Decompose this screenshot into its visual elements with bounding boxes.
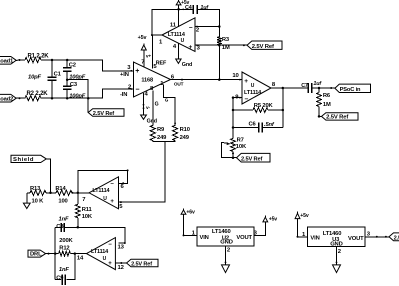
- svg-text:12: 12: [118, 265, 125, 271]
- svg-text:200K: 200K: [59, 238, 73, 244]
- svg-text:R3: R3: [222, 37, 230, 43]
- svg-text:LT1114: LT1114: [92, 188, 110, 194]
- svg-text:+5v: +5v: [269, 216, 278, 222]
- svg-text:2: 2: [196, 27, 200, 33]
- feedback vert left: [232, 98, 235, 139]
- svg-text:8: 8: [272, 82, 276, 88]
- wire join: [153, 141, 175, 142]
- svg-text:2.5V Ref: 2.5V Ref: [394, 235, 399, 241]
- svg-text:R5 20K: R5 20K: [254, 103, 274, 109]
- resistor R9: [150, 125, 167, 141]
- svg-text:2: 2: [227, 248, 231, 254]
- svg-text:R7: R7: [237, 138, 244, 144]
- capacitor C3: [63, 78, 86, 99]
- wire R3 to out: [218, 45, 220, 79]
- svg-text:+: +: [189, 44, 193, 51]
- wire left vertical: [54, 227, 57, 279]
- svg-text:−: −: [110, 181, 114, 187]
- resistor R5: [233, 103, 284, 113]
- op-amp U1 LT1114 gain: [242, 72, 271, 104]
- wire: [41, 88, 134, 98]
- svg-text:−: −: [189, 25, 193, 32]
- svg-text:REF: REF: [156, 61, 167, 67]
- svg-text:.5nf: .5nf: [264, 122, 275, 128]
- svg-text:2: 2: [338, 249, 342, 255]
- svg-text:Gnd: Gnd: [147, 119, 157, 125]
- svg-text:R6: R6: [323, 93, 331, 99]
- svg-text:4: 4: [145, 92, 149, 98]
- capacitor C6: [233, 121, 283, 132]
- svg-text:11: 11: [170, 22, 177, 28]
- capacitor C7: [301, 81, 335, 93]
- wire to pin5: [119, 142, 166, 203]
- svg-text:+: +: [110, 199, 114, 205]
- connector 2.5V Ref drl: [127, 259, 159, 267]
- svg-text:Load2: Load2: [0, 97, 13, 103]
- svg-text:R11: R11: [82, 207, 93, 213]
- pin 5 label: [119, 204, 123, 210]
- potentiometer R7: [221, 138, 247, 159]
- svg-text:2.5V Ref: 2.5V Ref: [131, 261, 152, 267]
- pin 8 out: [271, 82, 308, 89]
- svg-text:R10: R10: [180, 127, 190, 133]
- svg-text:DRL: DRL: [30, 252, 42, 258]
- svg-text:+6v: +6v: [186, 209, 195, 215]
- svg-text:v+: v+: [146, 55, 152, 60]
- feedback vert right: [282, 88, 284, 128]
- svg-text:100: 100: [58, 199, 67, 205]
- connector 2.5V Ref top: [247, 41, 282, 50]
- svg-text:4: 4: [173, 44, 177, 50]
- svg-text:LT1460: LT1460: [323, 231, 342, 237]
- pin 6 label: [121, 184, 125, 190]
- resistor R3: [217, 37, 230, 51]
- connector 2.5V Ref input: [88, 109, 124, 117]
- pin labels: [159, 22, 201, 51]
- connector 2.5V Ref right: [322, 113, 359, 121]
- svg-text:+5v: +5v: [138, 35, 147, 41]
- svg-text:10: 10: [232, 73, 239, 79]
- svg-text:−: −: [108, 242, 112, 248]
- svg-text:PSoC in: PSoC in: [340, 87, 361, 93]
- svg-text:C1: C1: [54, 71, 62, 77]
- connector 2.5V Ref bottom: [389, 233, 399, 241]
- wire: [318, 115, 322, 118]
- svg-text:10 K: 10 K: [32, 199, 45, 205]
- svg-text:VOUT: VOUT: [236, 235, 252, 241]
- wire: [46, 253, 59, 255]
- svg-text:G: G: [155, 101, 159, 107]
- pin 9 stub: [232, 95, 242, 101]
- svg-text:R13: R13: [30, 186, 41, 192]
- pin 12 stub: [115, 262, 126, 271]
- wire: [16, 59, 25, 61]
- svg-text:R12: R12: [59, 245, 69, 251]
- svg-text:1nF: 1nF: [59, 217, 69, 223]
- svg-text:U: U: [103, 256, 107, 262]
- svg-text:GND: GND: [220, 239, 232, 245]
- svg-text:2.5V Ref: 2.5V Ref: [241, 157, 263, 163]
- connector PSoC in: [335, 84, 371, 93]
- power +6v: [181, 208, 197, 236]
- svg-text:100pF: 100pF: [69, 94, 86, 100]
- svg-text:VIN: VIN: [200, 235, 209, 241]
- svg-text:U: U: [251, 83, 255, 89]
- wire: [16, 97, 25, 99]
- svg-text:2.5V Ref: 2.5V Ref: [326, 115, 348, 121]
- pin 2 label: [120, 84, 132, 98]
- resistor R2: [25, 91, 48, 101]
- pin 2 stub: [195, 25, 221, 28]
- svg-text:+5v: +5v: [300, 213, 309, 219]
- op-amp U1 LT1114 buffer: [162, 18, 195, 52]
- power +5v: [295, 212, 309, 238]
- ground: [23, 193, 30, 209]
- svg-text:13: 13: [118, 244, 125, 250]
- resistor R14: [55, 186, 89, 205]
- svg-text:C3: C3: [70, 82, 78, 88]
- svg-text:10pF: 10pF: [28, 75, 42, 81]
- svg-text:10K: 10K: [236, 144, 247, 150]
- pin 6 output wire: [171, 75, 242, 87]
- svg-text:Gnd: Gnd: [182, 62, 192, 68]
- power +5v at pin 7: [138, 35, 152, 66]
- feedback wire: [78, 169, 129, 192]
- svg-text:14: 14: [77, 255, 84, 261]
- resistor R13: [27, 186, 56, 205]
- svg-text:U: U: [181, 38, 185, 44]
- svg-text:1: 1: [159, 39, 163, 45]
- svg-text:R9: R9: [157, 127, 165, 133]
- wire: [67, 80, 89, 113]
- pin 8 gain wire: [150, 86, 159, 125]
- svg-text:+: +: [244, 78, 248, 85]
- svg-text:1168: 1168: [141, 78, 153, 84]
- resistor R6: [317, 88, 331, 116]
- svg-text:6: 6: [121, 184, 125, 190]
- REF pin 5 wire: [152, 35, 167, 70]
- svg-text:+IN: +IN: [120, 72, 129, 78]
- op-amp U1 LT1114 drl: [77, 238, 116, 270]
- svg-text:R2 2.2K: R2 2.2K: [27, 91, 49, 97]
- wire vout: [365, 231, 389, 238]
- svg-text:2.5V Ref: 2.5V Ref: [93, 111, 115, 117]
- capacitor C8: [55, 217, 126, 244]
- svg-text:C8: C8: [56, 224, 64, 230]
- svg-text:LT1460: LT1460: [212, 229, 231, 235]
- svg-text:+: +: [135, 68, 139, 75]
- svg-text:+5v: +5v: [181, 0, 189, 6]
- svg-text:-IN: -IN: [120, 92, 127, 98]
- svg-text:10K: 10K: [82, 214, 93, 220]
- pin 10 label: [232, 73, 239, 79]
- svg-text:OUT: OUT: [174, 82, 184, 87]
- svg-text:LT1114: LT1114: [244, 90, 262, 96]
- wire vout: [254, 216, 278, 237]
- svg-text:GND: GND: [330, 241, 342, 247]
- connector 2.5V Ref mid: [237, 153, 271, 162]
- svg-text:7: 7: [82, 197, 86, 203]
- svg-text:249: 249: [157, 135, 167, 141]
- svg-text:1M: 1M: [323, 102, 331, 108]
- svg-text:C9: C9: [56, 275, 64, 281]
- capacitor C1: [28, 59, 62, 100]
- svg-text:1uf: 1uf: [200, 5, 209, 11]
- svg-text:R14: R14: [55, 186, 66, 192]
- resistor R10: [173, 125, 190, 141]
- svg-text:1nF: 1nF: [59, 267, 69, 273]
- svg-text:2.5V Ref: 2.5V Ref: [252, 44, 274, 50]
- pin 1 gain wire: [160, 81, 176, 125]
- svg-text:U: U: [103, 196, 107, 202]
- regulator U2 LT1460: [197, 227, 254, 246]
- pin 13 label: [118, 244, 125, 250]
- svg-text:C6: C6: [249, 121, 257, 127]
- wire output to C4: [151, 9, 193, 36]
- ground pin 2: [222, 246, 231, 273]
- svg-text:R1 2.2K: R1 2.2K: [28, 53, 50, 59]
- connector Load1: [0, 57, 16, 65]
- svg-text:VOUT: VOUT: [348, 236, 364, 242]
- svg-text:−: −: [135, 87, 139, 94]
- svg-text:−: −: [245, 96, 249, 103]
- svg-text:C2: C2: [69, 63, 76, 69]
- pin 4 ground: [141, 92, 157, 125]
- resistor R12: [59, 238, 87, 256]
- wire: [46, 159, 51, 194]
- op-amp U1 1168: [134, 62, 171, 97]
- capacitor C2: [63, 59, 86, 81]
- svg-text:1M: 1M: [222, 45, 230, 51]
- svg-text:1uf: 1uf: [313, 81, 322, 87]
- svg-text:G: G: [165, 97, 169, 102]
- svg-text:249: 249: [180, 135, 190, 141]
- svg-text:Load1: Load1: [0, 59, 14, 65]
- regulator U3 LT1460: [308, 227, 366, 247]
- svg-text:v-: v-: [146, 106, 151, 111]
- svg-text:LT1114: LT1114: [91, 249, 109, 255]
- connector DRL: [28, 250, 46, 258]
- svg-text:+: +: [108, 261, 112, 267]
- svg-text:7: 7: [141, 60, 145, 66]
- capacitor C4: [182, 5, 219, 37]
- capacitor C9: [55, 254, 75, 285]
- power +5v top: [176, 0, 189, 27]
- pin 3 wire to ref: [195, 44, 247, 47]
- ground pin 2: [333, 247, 342, 273]
- svg-text:VIN: VIN: [310, 236, 319, 242]
- resistor R1: [25, 53, 49, 62]
- wire: [41, 60, 134, 72]
- op-amp U1 LT1114 shield: [82, 177, 118, 209]
- resistor R11: [75, 193, 92, 229]
- connector Shield: [11, 155, 46, 163]
- svg-text:3: 3: [197, 45, 201, 51]
- pin 3 label: [120, 65, 131, 78]
- svg-text:5: 5: [119, 204, 123, 210]
- pin 4 ground: [176, 43, 192, 68]
- svg-text:C7: C7: [301, 83, 308, 89]
- svg-text:Shield: Shield: [13, 157, 34, 163]
- connector Load2: [0, 94, 16, 102]
